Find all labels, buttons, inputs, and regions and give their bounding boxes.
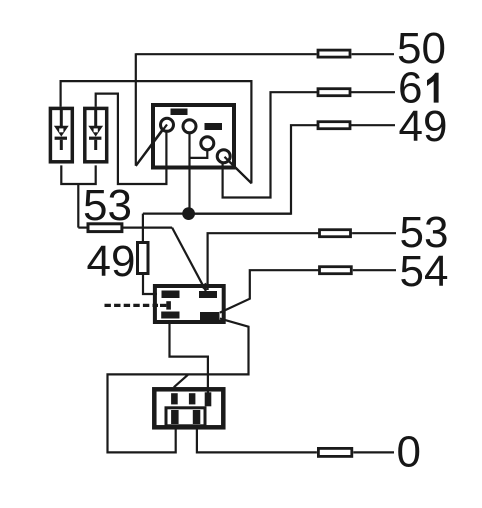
- switch pin B: [193, 410, 201, 424]
- wire relay bottom-left pin to switch pin 3: [170, 322, 208, 395]
- wire circle 3 elbow to circle 2 lead: [190, 150, 208, 158]
- wire diagonal brush lead to circle D+: [136, 129, 163, 166]
- wire terminal 61 routing (down, left, up to circle 4): [223, 92, 352, 197]
- wire stub connector 49 to label: [352, 124, 395, 126]
- wire terminal 49 right routing to junction: [195, 125, 352, 213]
- actuation stub: [160, 304, 166, 307]
- switch pin 1: [171, 393, 178, 404]
- svg-text:0: 0: [397, 428, 421, 477]
- ignition switch box S1: [154, 389, 223, 427]
- terminal connector 49: [318, 122, 350, 129]
- diode 1 symbol: [54, 109, 69, 150]
- wire switch pin B to terminal 0: [197, 429, 317, 452]
- wire fuse 53 to diagonal: [123, 227, 172, 229]
- wire terminal 50 to alternator D+ (horizontal + vertical drop): [136, 53, 317, 166]
- regulator terminal circle 4: [217, 150, 230, 163]
- wire diagonal into circle 1: [136, 125, 167, 166]
- wire relay bottom-right pin diagonal down and long loop to switch: [108, 319, 249, 453]
- wire diode join down to fuse 53: [77, 184, 79, 228]
- wire circle 1 lead inside box: [165, 131, 167, 168]
- relay pin top-left: [162, 291, 180, 299]
- actuation end bar: [166, 301, 171, 309]
- wire switch blade diagonal: [174, 374, 189, 387]
- switch pin 3: [205, 392, 212, 406]
- wire stub connector 61 to label: [352, 91, 395, 93]
- switch pin A: [171, 410, 179, 424]
- wire top feed diode 1 to circle 4 drop: [61, 81, 252, 183]
- diode 1 box: [50, 108, 72, 161]
- switch inner contact frame: [166, 408, 205, 426]
- regulator terminal circle 2: [183, 120, 196, 133]
- terminal connector 54: [320, 267, 352, 274]
- fuse 53: [88, 224, 122, 232]
- wire stub connector 0 to label: [353, 451, 394, 453]
- terminal connector 50: [318, 50, 350, 57]
- terminal connector 53: [320, 230, 351, 237]
- wire into fuse 53: [78, 227, 87, 229]
- arrowhead on 53 diagonal at relay pin: [200, 283, 207, 292]
- diode 2 box: [85, 108, 107, 161]
- diode 2 symbol: [88, 109, 103, 150]
- switch pin 2: [189, 393, 196, 404]
- wire terminal 53 right routing down to relay pin: [208, 233, 352, 290]
- svg-text:53: 53: [83, 181, 132, 230]
- wire terminal 54 routing down and diagonal to relay pin: [220, 270, 352, 312]
- regulator label bar 2: [205, 123, 223, 130]
- regulator terminal circle 3: [201, 137, 214, 150]
- relay pin bottom-right: [200, 312, 220, 320]
- svg-text:49: 49: [399, 102, 448, 151]
- svg-text:49: 49: [87, 237, 136, 286]
- wire junction down to fuse 49: [142, 214, 144, 242]
- dashed actuation line: [105, 304, 159, 307]
- relay pin bottom-left: [161, 312, 179, 319]
- wire diode bottoms join: [61, 165, 95, 184]
- terminal connector 0: [318, 448, 351, 456]
- wire diagonal through circle 4: [225, 157, 252, 184]
- regulator box U1: [153, 105, 234, 168]
- fuse 49: [138, 243, 149, 274]
- regulator terminal circle 1: [161, 118, 174, 131]
- wire stub connector 53 to label: [352, 232, 396, 234]
- wire stub connector 50 to label: [352, 53, 394, 55]
- relay pin top-right: [199, 291, 217, 298]
- wire diode 2 to regulator circle 1: [96, 94, 167, 184]
- wire junction horizontal through dot: [143, 213, 291, 215]
- wire diagonal from circle 4: [226, 158, 252, 184]
- wire fuse 49 to relay left side: [143, 275, 157, 295]
- wire circle 2 lead down to junction dot: [188, 133, 190, 208]
- regulator label bar 1: [171, 109, 188, 116]
- svg-text:54: 54: [400, 247, 449, 296]
- junction dot: [182, 207, 195, 220]
- wire diagonal to relay top-right pin: [172, 228, 206, 291]
- relay box K1: [155, 286, 224, 322]
- terminal connector 61: [318, 89, 350, 96]
- wire stub connector 54 to label: [353, 269, 396, 271]
